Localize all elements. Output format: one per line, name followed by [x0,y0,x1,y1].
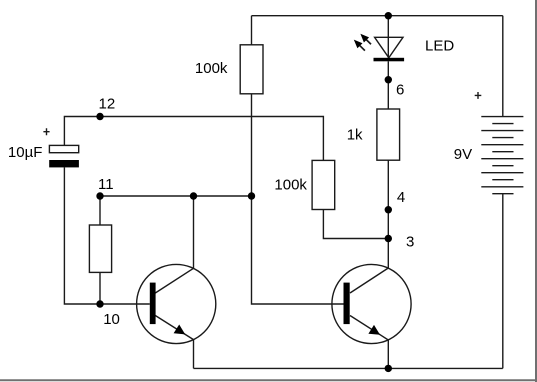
svg-text:10µF: 10µF [8,144,43,161]
svg-text:11: 11 [98,176,114,193]
svg-text:4: 4 [397,189,405,206]
svg-text:LED: LED [425,38,454,55]
svg-text:6: 6 [396,81,404,98]
svg-text:10: 10 [103,311,120,328]
svg-text:3: 3 [406,234,414,251]
svg-text:9V: 9V [454,146,472,163]
svg-text:100k: 100k [195,60,228,77]
svg-text:1k: 1k [347,127,363,144]
svg-text:12: 12 [99,96,116,113]
svg-text:100k: 100k [274,176,307,193]
